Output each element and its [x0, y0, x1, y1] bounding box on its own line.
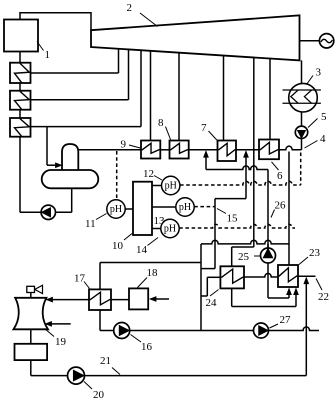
svg-text:5: 5: [321, 111, 327, 123]
svg-text:10: 10: [112, 240, 124, 252]
svg-text:8: 8: [158, 117, 164, 129]
svg-text:22: 22: [318, 291, 329, 303]
svg-text:3: 3: [316, 67, 322, 79]
svg-text:21: 21: [100, 355, 111, 367]
svg-text:pH: pH: [165, 181, 177, 192]
svg-text:pH: pH: [164, 224, 176, 235]
svg-text:12: 12: [143, 168, 154, 180]
svg-text:1: 1: [45, 49, 51, 61]
svg-text:25: 25: [238, 251, 250, 263]
svg-text:26: 26: [275, 200, 287, 212]
svg-text:17: 17: [74, 273, 86, 285]
svg-text:20: 20: [93, 389, 105, 400]
svg-text:27: 27: [280, 314, 292, 326]
svg-text:9: 9: [121, 139, 127, 151]
svg-text:15: 15: [227, 213, 239, 225]
svg-text:19: 19: [55, 336, 67, 348]
svg-text:18: 18: [147, 267, 159, 279]
svg-text:14: 14: [136, 244, 148, 256]
svg-text:7: 7: [201, 122, 207, 134]
svg-text:2: 2: [127, 2, 133, 14]
svg-text:pH: pH: [110, 204, 122, 215]
svg-text:16: 16: [141, 341, 153, 353]
svg-text:4: 4: [320, 133, 326, 145]
svg-text:11: 11: [85, 218, 96, 230]
svg-text:24: 24: [206, 297, 218, 309]
svg-text:6: 6: [277, 170, 283, 182]
svg-text:pH: pH: [179, 202, 191, 213]
svg-text:23: 23: [309, 247, 321, 259]
